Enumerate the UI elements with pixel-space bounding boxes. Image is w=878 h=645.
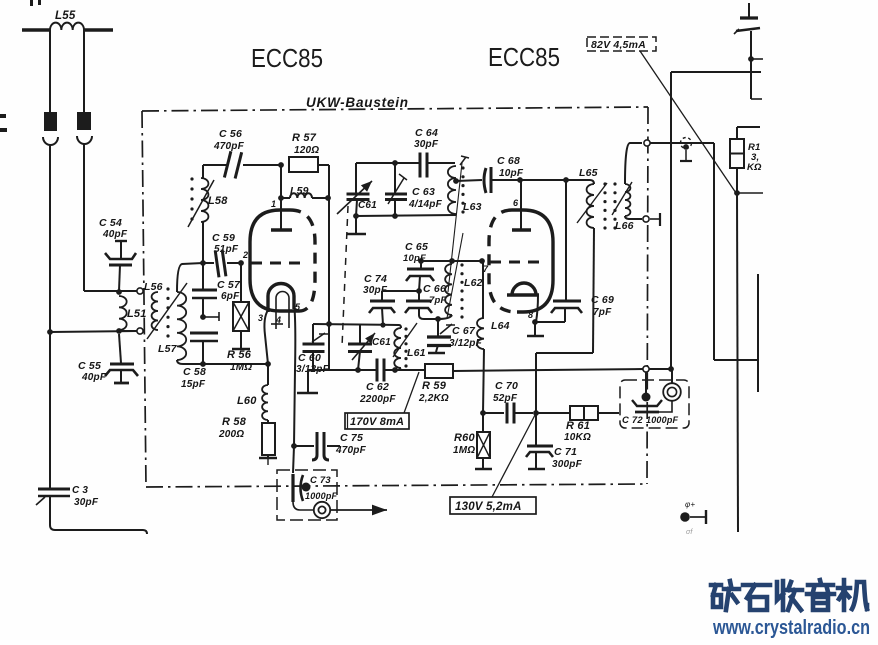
wire L58 vertical (202, 165, 204, 178)
svg-text:C 54: C 54 (99, 217, 122, 229)
wire C68 to L65 (491, 179, 590, 181)
inductor L61 (399, 325, 401, 328)
svg-text:6pF: 6pF (221, 291, 240, 302)
svg-text:52pF: 52pF (493, 393, 518, 404)
svg-text:C 70: C 70 (495, 380, 518, 392)
test point (681, 138, 692, 149)
svg-text:3: 3 (258, 313, 263, 323)
svg-text:σf: σf (686, 529, 693, 536)
inductor L62 (445, 264, 452, 315)
wire right antenna down (83, 144, 85, 291)
wire oscillator bottom rail (356, 215, 456, 216)
trimmer tick C60 (312, 333, 325, 342)
svg-text:2: 2 (242, 250, 248, 260)
tube U1b cathode (507, 293, 539, 296)
arrow variable coupling L56 (147, 283, 187, 339)
arrow L62 variable (447, 233, 463, 318)
svg-text:www.crystalradio.cn: www.crystalradio.cn (712, 617, 870, 639)
core dots L62 (460, 263, 463, 266)
capacitor C60 (312, 324, 314, 344)
svg-text:1: 1 (271, 199, 276, 209)
svg-text:L66: L66 (615, 220, 634, 232)
inductor L57 (177, 292, 186, 360)
inductor L64 (477, 318, 484, 349)
wire cap down (750, 31, 752, 99)
tube U1a heater (276, 292, 289, 329)
tube U1b envelope solid part (512, 210, 553, 312)
node 82V pointer target (734, 190, 740, 196)
svg-text:L57: L57 (158, 343, 178, 355)
edge fragment top-left (30, 0, 33, 6)
inductor L63 (448, 166, 456, 214)
svg-text:C 59: C 59 (212, 232, 235, 244)
wire L64 down to R60 (483, 349, 484, 413)
svg-text:C 67: C 67 (452, 325, 476, 337)
wire antenna bar right (84, 28, 113, 31)
node grid pin2 (238, 260, 244, 266)
node top rail junction (278, 162, 284, 168)
wire C73 to jack (293, 502, 313, 510)
svg-text:470pF: 470pF (213, 141, 245, 152)
svg-text:L65: L65 (579, 167, 598, 179)
wire antenna down-lead right (83, 30, 85, 112)
inductor L56 (152, 292, 158, 330)
terminal circle upper (137, 288, 143, 294)
wire L59 ends (281, 197, 290, 199)
svg-text:15pF: 15pF (181, 379, 206, 390)
UKW-Baustein border box (142, 107, 648, 111)
node C58 bottom (200, 361, 206, 367)
wire L63 tap to C68 (456, 180, 482, 181)
inductor L66 (625, 184, 630, 216)
antenna plug left (44, 112, 57, 131)
watermark chinese text (711, 580, 867, 610)
svg-text:φ+: φ+ (685, 500, 695, 509)
wire L57 top to grid line (177, 263, 203, 292)
wire cap top-right lead (748, 3, 750, 18)
node vertical R57 line bottom (326, 321, 332, 327)
capacitor C55 (119, 334, 121, 363)
svg-text:470pF: 470pF (335, 445, 367, 456)
output arrow (330, 509, 387, 511)
svg-text:1MΩ: 1MΩ (230, 362, 252, 373)
gang dashed link (342, 206, 348, 347)
node R60 top (480, 410, 486, 416)
svg-text:5: 5 (295, 302, 301, 312)
node on left antenna wire (47, 329, 53, 335)
wire cathode rail tube1 (177, 360, 268, 364)
node C61a bottom (353, 213, 359, 219)
wire top feed (671, 71, 761, 73)
svg-text:R 58: R 58 (222, 416, 247, 428)
wire C72 plate to jack (659, 401, 672, 412)
terminal circle rail (643, 366, 649, 372)
tube U1a envelope solid part (250, 210, 299, 311)
node B+ vertical (668, 366, 674, 372)
svg-text:C 3: C 3 (72, 485, 88, 496)
core dots L58 (190, 177, 193, 180)
inductor L60 (267, 364, 269, 385)
svg-text:C 75: C 75 (340, 432, 363, 444)
wire pin5 line into C73 box (293, 446, 294, 473)
svg-text:ECC85: ECC85 (251, 43, 323, 73)
svg-text:L61: L61 (407, 347, 426, 359)
wire bottom rail (308, 369, 376, 371)
svg-text:L55: L55 (55, 10, 76, 22)
svg-text:40pF: 40pF (102, 229, 128, 240)
wire node to L62 bottom (438, 315, 452, 319)
svg-text:C 71: C 71 (554, 446, 577, 458)
arrow C61a variable (337, 181, 372, 214)
svg-text:R60: R60 (454, 432, 475, 444)
wire cathode pin8 down (536, 295, 538, 322)
wire lower link (50, 331, 137, 332)
wire C64 right to L63 (428, 162, 455, 164)
svg-text:C 72: C 72 (622, 415, 643, 426)
wire L65 bottom down (593, 228, 594, 353)
ground stub rail left (307, 370, 309, 392)
svg-text:C 62: C 62 (366, 381, 389, 393)
arrow L66 variable (612, 182, 632, 215)
node C75 junction (291, 443, 297, 449)
capacitor C3 (38, 488, 70, 491)
node L51 top (116, 289, 122, 295)
svg-text:6: 6 (513, 198, 519, 208)
inductor L58 (201, 178, 208, 222)
capacitor C63 (394, 163, 396, 194)
svg-text:R 59: R 59 (422, 380, 447, 392)
resistor R61 (536, 412, 570, 414)
wire oscillator top rail (356, 162, 419, 164)
capacitor C73 box (277, 470, 337, 520)
svg-text:1000pF: 1000pF (305, 491, 338, 501)
svg-text:R 57: R 57 (292, 132, 317, 144)
node C65 top (418, 258, 424, 264)
jack C72 (663, 383, 681, 401)
wire top rail tube1 (203, 164, 227, 166)
capacitor C58 (190, 332, 218, 335)
capacitor C75 (312, 432, 317, 460)
node C69 top (563, 177, 569, 183)
inductor L59 (290, 193, 312, 198)
svg-text:C 64: C 64 (415, 127, 438, 139)
svg-text:C 66: C 66 (423, 283, 446, 295)
tube U1a envelope dashed part (290, 210, 315, 311)
svg-text:2,2KΩ: 2,2KΩ (418, 393, 449, 404)
svg-text:R 56: R 56 (227, 349, 252, 361)
capacitor C61b (359, 325, 361, 344)
svg-text:8: 8 (528, 310, 533, 320)
resistor R60 ground (482, 458, 484, 468)
wire bracket (714, 359, 758, 361)
wire pin7 vertical through L64 (482, 261, 484, 318)
capacitor C61a (355, 163, 357, 194)
core dots L61 (404, 327, 407, 330)
node junction C57 string top (200, 260, 206, 266)
svg-text:L62: L62 (464, 277, 483, 289)
svg-text:10KΩ: 10KΩ (564, 432, 591, 443)
arrow L65 variable (577, 183, 607, 223)
svg-text:4/14pF: 4/14pF (408, 199, 443, 210)
node grid pin7 (479, 258, 485, 264)
svg-text:C 68: C 68 (497, 155, 520, 167)
wire B+ vertical right (670, 72, 672, 369)
capacitor C65 (420, 261, 422, 269)
capacitor C62 (376, 359, 379, 382)
wire R57 line to rail (328, 324, 330, 370)
tube U1a anode (280, 199, 282, 230)
svg-text:1000pF: 1000pF (646, 415, 679, 425)
svg-text:R 61: R 61 (566, 420, 590, 432)
svg-text:C61: C61 (358, 200, 377, 211)
ground stub pin8 (534, 322, 536, 335)
node C73 (302, 483, 311, 492)
label box 130V 5,2mA (450, 497, 536, 514)
svg-text:2200pF: 2200pF (359, 394, 396, 405)
resistor R60 (482, 413, 484, 432)
resistor R59 (425, 364, 453, 378)
svg-text:ECC85: ECC85 (488, 42, 560, 72)
node C63 top (392, 160, 398, 166)
node C66 top (416, 288, 422, 294)
wire C66 bottom to C67 node (419, 309, 438, 319)
svg-text:1MΩ: 1MΩ (453, 445, 475, 456)
capacitor C56 (223, 151, 232, 178)
node C67 top (435, 316, 441, 322)
node C61b bottom (355, 367, 361, 373)
resistor R58 ground (267, 455, 269, 457)
svg-text:C 73: C 73 (310, 475, 331, 486)
wire right vertical 714 (713, 143, 715, 360)
inductor L51 (119, 296, 127, 330)
wire osc mid rail (313, 324, 399, 325)
wire rail R59 to border (453, 369, 643, 371)
capacitor C69 (565, 180, 567, 301)
svg-text:7pF: 7pF (593, 307, 612, 318)
antenna plug right (77, 112, 91, 130)
capacitor C67 (437, 319, 439, 337)
arrow L58 variable (188, 180, 214, 227)
svg-text:C61: C61 (372, 337, 391, 348)
tube U1b anode (520, 180, 522, 230)
edge fragment left (0, 114, 6, 118)
capacitor C72 box (620, 380, 689, 428)
wire left antenna to C3 (49, 145, 51, 488)
node L61 bottom (392, 367, 398, 373)
svg-text:170V 8mA: 170V 8mA (350, 416, 404, 428)
wire to L51 top (84, 290, 137, 292)
resistor R56 ground stub (240, 331, 242, 348)
svg-text:C 56: C 56 (219, 128, 242, 140)
svg-text:10pF: 10pF (403, 253, 426, 264)
resistor R57 (289, 157, 318, 172)
pointer 130V (492, 415, 535, 497)
wire R61 to C72 box (598, 412, 619, 414)
trimmer tick L63 top (460, 157, 466, 165)
capacitor C59 (215, 250, 226, 278)
node anode tube2 (517, 177, 523, 183)
inductor L65 (590, 180, 594, 184)
node C70 right (533, 410, 539, 416)
svg-text:30pF: 30pF (414, 139, 439, 150)
capacitor C57 (192, 289, 217, 292)
capacitor C66 (418, 291, 420, 301)
node C72 (642, 393, 651, 402)
svg-text:40pF: 40pF (81, 372, 107, 383)
svg-text:C 63: C 63 (412, 186, 435, 198)
resistor R56 (233, 302, 249, 331)
wire L66 bottom to terminal (625, 216, 642, 219)
svg-text:C 60: C 60 (298, 352, 321, 364)
node L59 left (278, 195, 284, 201)
capacitor C72 plate (632, 400, 662, 406)
tube U1a cathode (268, 284, 294, 313)
wire anode lead down (280, 165, 282, 198)
label box 170V 8mA (345, 413, 409, 429)
svg-text:30pF: 30pF (74, 497, 99, 508)
label box 82V 4,5mA (587, 37, 656, 51)
capacitor top-right (740, 16, 758, 19)
wire anode feed through border (644, 140, 650, 146)
resistor R58 (267, 420, 269, 423)
wire grid2 line (421, 260, 482, 262)
node C63 bottom (392, 213, 398, 219)
wire pin8 to C69 (535, 321, 565, 323)
svg-text:C 74: C 74 (364, 273, 387, 285)
wire L63 adjust line (448, 163, 462, 292)
stub corner right (751, 98, 762, 100)
capacitor C64 (419, 153, 422, 178)
capacitor C74 (382, 290, 419, 292)
wire rail to C72 node (649, 368, 671, 370)
svg-text:KΩ: KΩ (747, 162, 762, 173)
svg-text:UKW-Baustein: UKW-Baustein (306, 95, 409, 110)
terminal circle L66 bottom (643, 216, 649, 222)
svg-text:L63: L63 (463, 201, 482, 213)
svg-text:L64: L64 (491, 320, 510, 332)
svg-text:130V 5,2mA: 130V 5,2mA (455, 501, 522, 513)
resistor right (736, 127, 738, 139)
node L59 right (325, 195, 331, 201)
wire below C3 (50, 497, 147, 534)
svg-text:L56: L56 (144, 281, 163, 293)
node pin8 (532, 319, 538, 325)
svg-text:C 55: C 55 (78, 360, 101, 372)
trimmer tick C67 (440, 324, 452, 334)
node pin3 to rail (265, 361, 271, 367)
wire pin5 down (294, 303, 295, 446)
svg-text:C 57: C 57 (217, 279, 241, 291)
tube U1a grid dashed (251, 262, 305, 265)
trimmer tick C63 (388, 178, 404, 204)
svg-text:L58: L58 (208, 195, 228, 207)
resistor R56 top lead (240, 263, 242, 302)
svg-text:82V 4,5mA: 82V 4,5mA (591, 39, 646, 51)
svg-text:C 65: C 65 (405, 241, 428, 253)
wire antenna bar left (22, 28, 50, 31)
capacitor C54 (115, 240, 127, 242)
wire pin3 to rail (264, 310, 268, 364)
arrow C61b variable (352, 333, 375, 360)
node L63 tap (453, 178, 459, 184)
core dots L65/L66 (603, 182, 606, 185)
core dots L56/L57 (166, 287, 169, 290)
output jack C73 (314, 502, 330, 518)
svg-text:4: 4 (275, 315, 281, 325)
svg-text:L60: L60 (237, 395, 257, 407)
wire long vertical from R57 (328, 165, 330, 324)
pointer 82V diagonal (640, 51, 736, 193)
wire jack to node (671, 369, 673, 383)
wire C70 node up to L65 line (535, 353, 537, 413)
svg-text:120Ω: 120Ω (294, 145, 319, 156)
tube U1b grid dashed (490, 261, 543, 264)
wire long vertical down (737, 193, 738, 532)
svg-text:7pF: 7pF (429, 295, 447, 306)
wire border into C72 (645, 372, 647, 393)
svg-text:51pF: 51pF (214, 244, 239, 255)
wire R57 to vertical (318, 164, 329, 166)
terminal circle lower (137, 328, 143, 334)
svg-text:200Ω: 200Ω (218, 429, 244, 440)
wire L51 to circle (122, 330, 137, 332)
pointer 170V (404, 372, 419, 413)
wire antenna down-lead left (49, 30, 51, 112)
stub at tap (203, 316, 219, 318)
chassis bar L66 (650, 218, 659, 220)
wire rail C62 to R59 (385, 369, 425, 371)
wire L66 top (625, 143, 642, 184)
node right stub (748, 56, 754, 62)
capacitor C70 (483, 412, 504, 414)
svg-text:300pF: 300pF (552, 459, 583, 470)
capacitor C73 (291, 474, 294, 502)
node L51 bottom (116, 328, 122, 334)
core dots L63 (461, 166, 464, 169)
capacitor C71 (535, 413, 537, 446)
inductor L55 (50, 23, 84, 30)
tube U1b envelope dashed part (489, 210, 517, 312)
svg-text:C 58: C 58 (183, 366, 206, 378)
node C57/C58 tap (200, 314, 206, 320)
arrow L61 variable (393, 323, 417, 357)
capacitor C68 (484, 168, 486, 193)
node L62 top (449, 258, 455, 264)
ground stub oscillator (355, 216, 357, 233)
